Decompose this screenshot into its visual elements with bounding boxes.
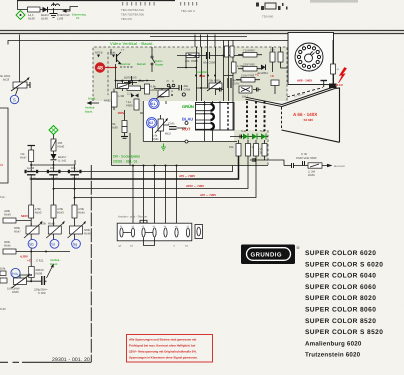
caps row [216,88,224,92]
coil inner wiring [196,103,211,130]
connector wire link [124,232,153,234]
dashed link x108 [107,52,109,95]
red warning text [129,338,198,360]
diode BA157 [51,151,67,163]
capacitor 1u/250V [228,78,244,88]
wire top-left feed [18,0,71,10]
stubs diode row to resistors [239,140,257,144]
diode IN981 [258,65,268,76]
connector strip body [117,223,192,241]
measuring point 48 (red) [95,62,117,72]
PVA wires [20,275,47,281]
switch point Sr [50,239,59,248]
electrolytic C543b [47,166,61,181]
bent arrow output [64,7,78,12]
electrolytic C543a [25,166,39,181]
top strip border line [17,0,175,2]
electrolytic C544 [68,166,82,181]
resistor R543a 470k [29,205,34,218]
coil box bottom wires [205,130,213,141]
snubber wire [284,165,327,167]
resistor R565 [236,144,241,157]
resistor R682 (1,3M) [112,92,118,107]
CRT yoke dashed diagonal [287,88,323,98]
wire to focus pot [19,35,21,83]
CRT socket dashed wires [247,101,265,131]
DR socket board (shaded) [111,101,268,165]
board bottom edge [22,361,91,363]
resistor R680 [186,53,199,58]
pot R548 [46,221,65,238]
resistor R544 470k [72,205,77,218]
video module board (shaded) [93,47,287,101]
ground R580 [121,133,128,139]
resistor bridge 1,2k [117,79,129,89]
pot R547b [24,221,43,238]
socket key center [305,51,315,62]
video module dashed border [93,47,287,101]
wire K1-K2 link [140,109,162,113]
resistor R683 [127,86,141,91]
anode feed wire [332,40,334,64]
pot R546 [68,221,87,238]
left cut-off board box [0,108,8,183]
switch point Sb [28,239,37,248]
wire verticals from separator into module [194,35,196,48]
wire row y55.5 [177,55,243,57]
resistor above K1 [160,91,164,97]
connector pin labels bottom [119,245,189,248]
wire pot to S [16,88,19,95]
spark gap DA7 [239,86,252,99]
resistor R547 (72k) [29,150,34,162]
DR board border [111,101,113,166]
green diode 3 [260,129,266,140]
junction dots row y80 [115,80,148,82]
resistor R684 [145,84,150,94]
snubber cap [303,161,305,166]
socket pins [297,45,320,68]
pot MD2 [155,118,171,136]
connector pins [120,228,190,237]
green diode 2 [252,134,257,140]
test point K2 [147,118,157,128]
HV lightning bolt [339,68,347,84]
pot A [156,86,173,99]
wire y165 [31,160,75,171]
green diode 1 [241,129,248,140]
capacitor C509 [34,276,48,295]
separator double rule [0,30,404,32]
convergence coil box [196,103,235,131]
arrow to vertical board [47,264,54,279]
CRT funnel bottom edge [282,130,340,142]
white sub-panel K1/K2 [143,101,234,142]
module right column resistors [270,52,275,62]
switch point Sg [72,239,81,248]
main frame top border [8,41,290,45]
faint bar top right [310,0,358,3]
wire row y80 [116,76,156,91]
diode D168 [43,7,48,13]
left edge component b [0,278,7,283]
switch contacts [151,47,155,72]
terminal circle right [182,93,185,96]
junction dots [195,55,225,77]
green ground DR [161,144,166,151]
IC pinout TBA120S group [180,2,197,6]
anode resistor [331,64,336,74]
diode row wire [230,136,268,138]
resistor P680 [134,99,139,110]
resistor R567 [254,144,259,157]
resistor R540 (160) [51,135,65,152]
pot R506 [12,274,31,289]
left edge component a [0,271,6,276]
connector pin labels top [120,225,190,228]
pot R691 [207,79,222,92]
bus bend wires right [31,156,239,179]
capacitor C684 [179,84,191,92]
wire to snubber [250,160,284,166]
capacitor C565 [168,122,177,130]
coil green [211,104,214,111]
resistor R580 [111,121,127,133]
board bottom dashes [0,361,19,363]
terminal circle left [185,140,188,143]
CRT funnel top edge double [282,87,335,107]
dots y95 [165,94,173,96]
switch point S [10,95,18,103]
CRT socket circle [295,43,323,71]
test point K1 [149,98,159,108]
IC pinout TBA440 group [122,2,155,6]
wires DR area [125,101,187,165]
coil blue [211,113,214,120]
arrow Bildrohr [327,164,346,168]
capacitor C586 [203,52,216,65]
coil box top pins [205,101,234,130]
module vertical buses [196,47,198,101]
CRT funnel left dashed edge [281,107,283,130]
model list [305,250,383,336]
coil red [211,123,214,130]
red warning box [127,335,213,363]
resistor R168 [28,7,41,12]
left columns through buses [31,165,74,205]
test diamond green [49,126,58,135]
GRUNDIG logo [241,245,300,265]
resistor R543b 470k [51,205,56,218]
test point diamond (green) [16,11,25,20]
wire bottom bus [16,248,70,266]
coil box dashed pin [227,103,229,131]
wires DR to connector [133,166,177,229]
transistor T7 [111,48,125,65]
anode wire lower [332,74,334,84]
spark gap T on neck [321,81,328,88]
zener diode [124,80,137,85]
wire upper horizontal [150,36,247,38]
snubber input bars [292,163,294,168]
wire 420k [16,218,31,226]
bus wire top [31,166,233,172]
coil L168 with ground [50,3,60,18]
resistor R508 [29,267,35,278]
anode cap connector [329,84,337,89]
test point PVA [11,268,20,277]
CRT socket inset box [288,33,334,85]
wire caps small [240,135,242,139]
resistor R566 [246,144,251,157]
terminals O D [167,79,175,87]
extra pin box [195,225,203,239]
column joins [31,218,74,240]
wires right stack [236,55,262,80]
resistor R569 [308,163,322,168]
socket pin numbers [295,43,323,72]
board edge vertical x91 [90,165,92,362]
focus pot R561 [11,77,30,91]
connector U loop [144,238,155,246]
CRT neck lines [246,97,283,106]
connector notch [140,220,147,223]
IC pinout TDA900 group [256,3,288,11]
capacitor top plate 72k [28,146,36,151]
diode pair [131,94,139,98]
CRT funnel right edge [335,88,339,142]
wire module left column [114,64,147,110]
green arrow Vertikal-Baust [87,101,100,105]
